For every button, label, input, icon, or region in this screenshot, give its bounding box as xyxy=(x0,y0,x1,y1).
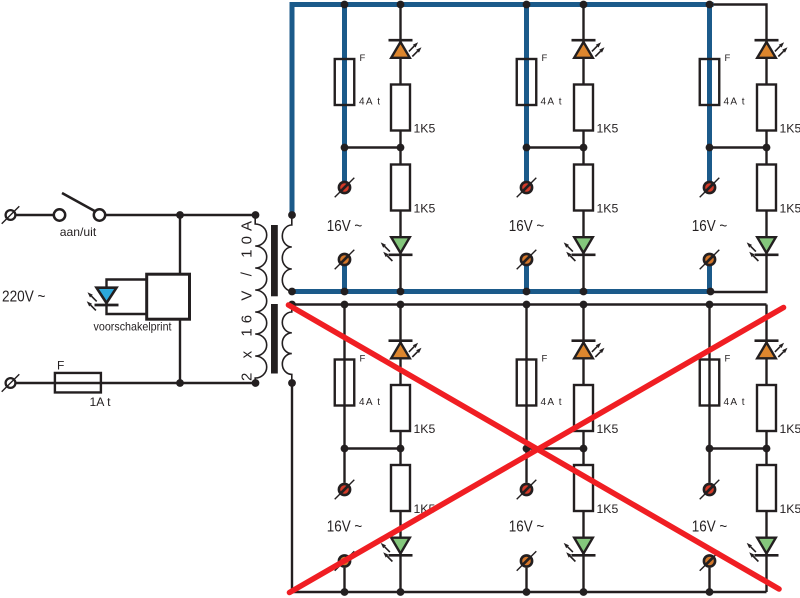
fuse F1 1A t (mains) xyxy=(55,373,101,393)
wire: bottom bank connector stub column 2 xyxy=(525,568,527,592)
fuse F2 4A t top bank column 1 xyxy=(335,59,355,105)
node: top bus junction chain 2 xyxy=(580,1,588,9)
node: bottom bank bottom bus junction fuse 3 xyxy=(706,588,714,596)
svg-text:1K5: 1K5 xyxy=(414,122,436,136)
wire: bottom bank junction link column 2 xyxy=(527,447,584,449)
LED D8 orange bottom bank column 1 xyxy=(389,341,422,359)
wire: bottom bank top bus xyxy=(292,303,767,305)
svg-text:16V ~: 16V ~ xyxy=(327,218,363,235)
svg-text:16V ~: 16V ~ xyxy=(327,519,363,536)
wire: top bank fuse branch column 1 (blue) xyxy=(342,2,347,181)
switch S1 aan/uit pole left xyxy=(54,209,65,220)
wire: top bank junction link column 3 xyxy=(710,146,767,148)
svg-text:F: F xyxy=(57,359,64,373)
switch S1 lever xyxy=(62,193,96,212)
wire: bottom bank junction link column 1 xyxy=(345,447,401,449)
svg-text:F: F xyxy=(360,53,366,64)
connector K3 top bank column 3 upper xyxy=(700,178,720,198)
node: bottom bank top bus junction fuse 1 xyxy=(341,301,349,309)
svg-text:1K5: 1K5 xyxy=(414,422,436,436)
svg-text:1K5: 1K5 xyxy=(597,202,619,216)
node: bottom bank midpoint junction column 2 right xyxy=(580,445,588,453)
svg-text:F: F xyxy=(360,354,366,365)
wire: top bank connector stub column 3 (blue) xyxy=(707,266,712,292)
fuse F5 4A t bottom bank column 1 xyxy=(335,360,355,406)
LED D12 orange bottom bank column 3 xyxy=(755,341,788,359)
node: bottom bank top bus junction chain 1 xyxy=(397,301,405,309)
node: bottom bank top bus junction chain 2 xyxy=(580,301,588,309)
resistor R2 top bank column 1 lower xyxy=(391,165,410,211)
svg-text:16V ~: 16V ~ xyxy=(692,519,728,536)
transformer T1 secondary winding 2 (bottom) xyxy=(282,305,292,384)
red cross stroke 1 (top-left to bottom-right) xyxy=(289,305,780,589)
node: bottom bank bottom bus junction fuse 2 xyxy=(523,588,531,596)
fuse F7 4A t bottom bank column 3 xyxy=(700,360,720,406)
wire: bottom bank junction link column 3 xyxy=(710,447,767,449)
node: top bus junction chain 1 xyxy=(397,1,405,9)
LED D7 green top bank column 3 xyxy=(747,237,779,261)
LED D3 green top bank column 1 xyxy=(381,237,413,261)
node: bottom bank bottom bus junction chain 2 xyxy=(580,588,588,596)
wire: bottom bank fuse branch column 3 xyxy=(708,305,710,483)
connector K2 top bank column 2 lower xyxy=(517,250,537,270)
resistor R1 top bank column 1 upper xyxy=(391,85,410,131)
svg-text:4A t: 4A t xyxy=(541,397,562,408)
node: mains neutral junction below voorschakelprint xyxy=(176,379,184,387)
wire: top bank LED chain column 1 xyxy=(399,5,401,292)
svg-text:220V ~: 220V ~ xyxy=(2,289,46,306)
resistor R7 bottom bank column 1 upper xyxy=(391,385,410,431)
wire: top bank connector stub column 1 (blue) xyxy=(342,266,347,292)
node: secondary 1 top terminal xyxy=(288,211,296,219)
svg-text:1A t: 1A t xyxy=(90,395,112,409)
fuse F6 4A t bottom bank column 2 xyxy=(517,360,537,406)
connector K1 top bank column 1 upper xyxy=(335,178,355,198)
fuse F3 4A t top bank column 2 xyxy=(517,59,537,105)
node: bottom bank bottom bus junction fuse 1 xyxy=(341,588,349,596)
LED D9 green bottom bank column 1 xyxy=(381,538,413,562)
svg-text:4A t: 4A t xyxy=(724,397,745,408)
node: top bus junction fuse 2 xyxy=(523,1,531,9)
wire: drop to voorschakelprint box top xyxy=(179,215,181,275)
connector K6 bottom bank column 3 upper xyxy=(700,480,720,500)
node: bottom bank midpoint junction column 3 right xyxy=(763,445,771,453)
wire: bottom bank LED chain column 1 xyxy=(399,305,401,593)
fuse F4 4A t top bank column 3 xyxy=(700,59,720,105)
wire: mains live from switch to transformer primary xyxy=(105,214,257,216)
connector K1 top bank column 1 lower xyxy=(335,250,355,270)
connector K2 top bank column 2 upper xyxy=(517,178,537,198)
node: mains live at transformer primary top xyxy=(252,211,260,219)
svg-text:F: F xyxy=(725,354,731,365)
svg-text:1K5: 1K5 xyxy=(414,202,436,216)
switch S1 aan/uit pole right xyxy=(94,209,105,220)
svg-text:1K5: 1K5 xyxy=(780,422,800,436)
wire: bottom bank bottom bus xyxy=(292,591,767,593)
wire: top bank LED chain column 3 with black bus extensions xyxy=(711,5,767,293)
terminal: mains live input xyxy=(2,206,20,224)
wire: top bank top bus with left drop to transformer secondary 1 (blue) xyxy=(292,5,714,215)
wire: top bank junction link column 1 xyxy=(345,146,401,148)
connector K3 top bank column 3 lower xyxy=(700,250,720,270)
resistor R5 top bank column 3 upper xyxy=(757,85,776,131)
resistor R8 bottom bank column 1 lower xyxy=(391,465,410,511)
node: bottom bank midpoint junction column 3 left xyxy=(706,445,714,453)
LED D5 green top bank column 2 xyxy=(564,237,596,261)
transformer T1 secondary winding 1 (top) xyxy=(282,215,292,292)
voorschakelprint box U1 xyxy=(147,274,190,319)
node: top bank bottom bus junction fuse 1 xyxy=(341,288,349,296)
resistor R9 bottom bank column 2 upper xyxy=(574,385,593,431)
LED D10 orange bottom bank column 2 xyxy=(572,341,605,359)
svg-text:1K5: 1K5 xyxy=(597,502,619,516)
node: top bus junction fuse 1 xyxy=(341,1,349,9)
wire: top bank fuse branch column 2 (blue) xyxy=(524,2,529,181)
node: top bank midpoint junction column 1 right xyxy=(397,144,405,152)
node: bottom bank midpoint junction column 2 left xyxy=(523,445,531,453)
svg-text:16V ~: 16V ~ xyxy=(509,218,545,235)
svg-text:4A t: 4A t xyxy=(359,97,380,108)
svg-text:voorschakelprint: voorschakelprint xyxy=(94,320,173,334)
node: bottom bank top bus junction fuse 2 xyxy=(523,301,531,309)
svg-text:16V ~: 16V ~ xyxy=(692,218,728,235)
connector K5 bottom bank column 2 upper xyxy=(517,480,537,500)
wire: top bank junction link column 2 xyxy=(527,146,584,148)
node: top bank bottom bus junction chain 1 xyxy=(397,288,405,296)
svg-text:1K5: 1K5 xyxy=(597,422,619,436)
svg-text:F: F xyxy=(542,53,548,64)
node: top bus junction fuse 3 xyxy=(706,1,714,9)
resistor R12 bottom bank column 3 lower xyxy=(757,465,776,511)
node: top bank bottom bus junction fuse 2 xyxy=(523,288,531,296)
wire: top bank bottom bus (blue) xyxy=(292,289,714,294)
node: top bank midpoint junction column 2 right xyxy=(580,144,588,152)
svg-text:1K5: 1K5 xyxy=(597,122,619,136)
LED D2 orange top bank column 1 xyxy=(389,40,422,58)
node: mains live junction to voorschakelprint xyxy=(176,211,184,219)
wire: bottom bank connector stub column 1 xyxy=(343,568,345,592)
svg-text:1K5: 1K5 xyxy=(780,502,800,516)
wire: top bank connector stub column 2 (blue) xyxy=(524,266,529,292)
LED D13 green bottom bank column 3 xyxy=(747,538,779,562)
node: top bank midpoint junction column 2 left xyxy=(523,144,531,152)
resistor R4 top bank column 2 lower xyxy=(574,165,593,211)
node: secondary 1 bottom terminal xyxy=(288,288,296,296)
resistor R11 bottom bank column 3 upper xyxy=(757,385,776,431)
node: top bank midpoint junction column 3 right xyxy=(763,144,771,152)
wire: mains neutral from terminal through fuse to transformer primary xyxy=(14,382,257,384)
wire: voorschakelprint box bottom to neutral xyxy=(179,318,181,383)
resistor R6 top bank column 3 lower xyxy=(757,165,776,211)
node: secondary 2 top terminal xyxy=(288,301,296,309)
node: top bank bottom bus junction chain 2 xyxy=(580,288,588,296)
node: top bank midpoint junction column 3 left xyxy=(706,144,714,152)
node: secondary 2 bottom terminal xyxy=(288,379,296,387)
transformer T1 primary winding xyxy=(255,215,267,383)
node: mains neutral at transformer primary bottom xyxy=(252,379,260,387)
svg-text:4A t: 4A t xyxy=(724,97,745,108)
svg-text:aan/uit: aan/uit xyxy=(60,225,97,239)
LED D4 orange top bank column 2 xyxy=(572,40,605,58)
transformer T1 core bar lower xyxy=(271,304,278,374)
wire: bottom bank left drop from transformer secondary 2 xyxy=(291,383,293,592)
svg-text:1K5: 1K5 xyxy=(780,122,800,136)
svg-text:4A t: 4A t xyxy=(541,97,562,108)
connector K4 bottom bank column 1 upper xyxy=(335,480,355,500)
wire: bottom bank fuse branch column 2 xyxy=(525,305,527,483)
wire: bottom bank connector stub column 3 xyxy=(708,568,710,592)
wire: LED loop from voorschakelprint xyxy=(107,280,148,315)
resistor R3 top bank column 2 upper xyxy=(574,85,593,131)
node: top bank midpoint junction column 1 left xyxy=(341,144,349,152)
resistor R10 bottom bank column 2 lower xyxy=(574,465,593,511)
red cross stroke 2 (bottom-left to top-right) xyxy=(290,308,784,593)
node: bottom bank top bus junction fuse 3 xyxy=(706,301,714,309)
node: bottom bank midpoint junction column 1 right xyxy=(397,445,405,453)
wire: top bank fuse branch column 3 (blue) xyxy=(707,2,712,181)
connector K5 bottom bank column 2 lower xyxy=(517,551,537,571)
svg-text:1K5: 1K5 xyxy=(780,202,800,216)
terminal: mains neutral input xyxy=(2,374,20,392)
wire: bottom bank LED chain column 3 (right edge) xyxy=(765,305,767,593)
wire: mains live from terminal to switch xyxy=(14,214,55,216)
LED D6 orange top bank column 3 xyxy=(755,40,788,58)
node: top bank bottom bus end junction xyxy=(707,288,715,296)
LED D1 power indicator (blue) xyxy=(87,288,119,311)
LED D11 green bottom bank column 2 xyxy=(564,538,596,562)
connector K6 bottom bank column 3 lower xyxy=(700,551,720,571)
node: bottom bank midpoint junction column 1 left xyxy=(341,445,349,453)
node: bottom bank bottom bus junction chain 1 xyxy=(397,588,405,596)
svg-text:16V ~: 16V ~ xyxy=(509,519,545,536)
svg-text:4A t: 4A t xyxy=(359,397,380,408)
svg-text:F: F xyxy=(542,354,548,365)
svg-text:2 x 16 V / 10A: 2 x 16 V / 10A xyxy=(239,221,256,381)
transformer T1 core bar upper xyxy=(271,225,278,296)
wire: bottom bank fuse branch column 1 xyxy=(343,305,345,483)
svg-text:F: F xyxy=(725,53,731,64)
wire: bottom bank LED chain column 2 xyxy=(582,305,584,593)
wire: top bank LED chain column 2 xyxy=(582,5,584,292)
connector K4 bottom bank column 1 lower xyxy=(335,551,355,571)
